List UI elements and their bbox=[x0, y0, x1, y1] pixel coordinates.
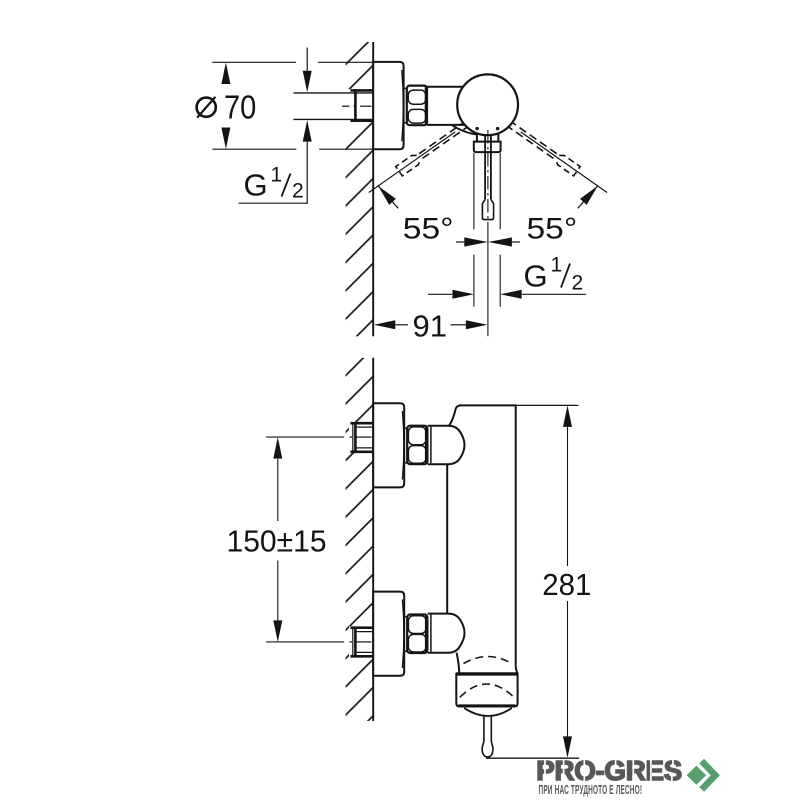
svg-text:281: 281 bbox=[542, 568, 591, 602]
svg-text:ПРИ НАС ТРУДНОТО Е ЛЕСНО!: ПРИ НАС ТРУДНОТО Е ЛЕСНО! bbox=[539, 784, 643, 798]
svg-text:55°: 55° bbox=[527, 211, 578, 245]
svg-text:55°: 55° bbox=[403, 211, 454, 245]
svg-text:G: G bbox=[244, 167, 268, 202]
svg-text:2: 2 bbox=[572, 271, 584, 294]
svg-text:150±15: 150±15 bbox=[227, 524, 327, 559]
svg-text:1: 1 bbox=[271, 164, 283, 187]
svg-text:G: G bbox=[524, 258, 548, 293]
svg-text:70: 70 bbox=[224, 89, 256, 126]
svg-text:1: 1 bbox=[551, 254, 563, 277]
svg-text:PRO-GRES: PRO-GRES bbox=[536, 755, 682, 786]
svg-text:2: 2 bbox=[292, 179, 304, 202]
svg-text:91: 91 bbox=[413, 308, 447, 343]
